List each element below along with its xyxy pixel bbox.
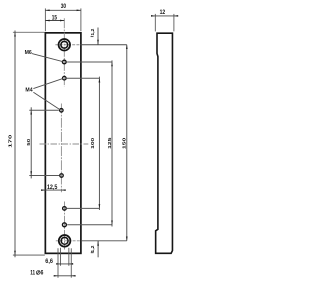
svg-text:100: 100 (90, 137, 96, 149)
projection line counterbore C1 (55, 44, 126, 46)
svg-text:1,2: 1,2 (90, 245, 96, 252)
dimension 150 (122, 45, 128, 241)
hole H4 M4 (60, 109, 64, 113)
hole H7 (62, 223, 66, 227)
dimension 170 (7, 31, 45, 258)
projection line counterbore C8 (56, 240, 127, 242)
svg-text:11: 11 (30, 271, 35, 277)
projection line hole H2 (67, 61, 112, 63)
svg-text:12: 12 (160, 10, 166, 16)
centerline top hole group (63, 18, 65, 86)
centerline middle hole group (60, 104, 62, 193)
label M6 with leader (25, 50, 63, 61)
projection line hole H6 (67, 207, 99, 209)
hole H3 M4 (63, 76, 67, 80)
counterbore C1 top (59, 39, 71, 51)
svg-text:30: 30 (61, 4, 67, 10)
dimension 125 (107, 60, 113, 226)
label M4 with leaders (25, 79, 62, 110)
side view profile (156, 33, 173, 253)
hole H5 (60, 174, 64, 178)
svg-text:125: 125 (107, 137, 113, 149)
svg-text:M6: M6 (25, 50, 32, 56)
dimension 15 (45, 15, 64, 21)
counterbore C8 bottom (59, 235, 71, 247)
centerline bottom hole group (64, 202, 66, 250)
svg-text:170: 170 (7, 134, 13, 148)
horizontal mid centerline (40, 143, 89, 145)
dimension 6,6 (45, 248, 73, 266)
svg-text:50: 50 (26, 138, 32, 145)
svg-text:6,6: 6,6 (45, 259, 53, 265)
plate front view outline (45, 33, 81, 254)
projection line hole H7 (67, 224, 112, 226)
svg-text:15: 15 (52, 15, 58, 21)
dimension 12 side view (151, 10, 178, 32)
dimension 30 (45, 4, 81, 31)
projection line hole H3 (67, 77, 100, 79)
dimension 12,5 (41, 185, 66, 191)
svg-text:1,2: 1,2 (90, 28, 96, 35)
hole H6 (63, 207, 67, 211)
dimension 50 (26, 107, 32, 178)
svg-text:M4: M4 (25, 88, 32, 94)
dimension 1,2 bottom (90, 241, 99, 257)
dimension 11 / d6 (30, 248, 75, 277)
projection line hole H4 (29, 109, 59, 111)
dimension 1,2 top (90, 28, 99, 45)
svg-text:150: 150 (122, 137, 128, 149)
svg-text:12,5: 12,5 (47, 185, 58, 191)
hole H2 M6 (62, 60, 66, 64)
dimension 100 (90, 77, 100, 210)
projection line hole H5 (29, 175, 59, 177)
